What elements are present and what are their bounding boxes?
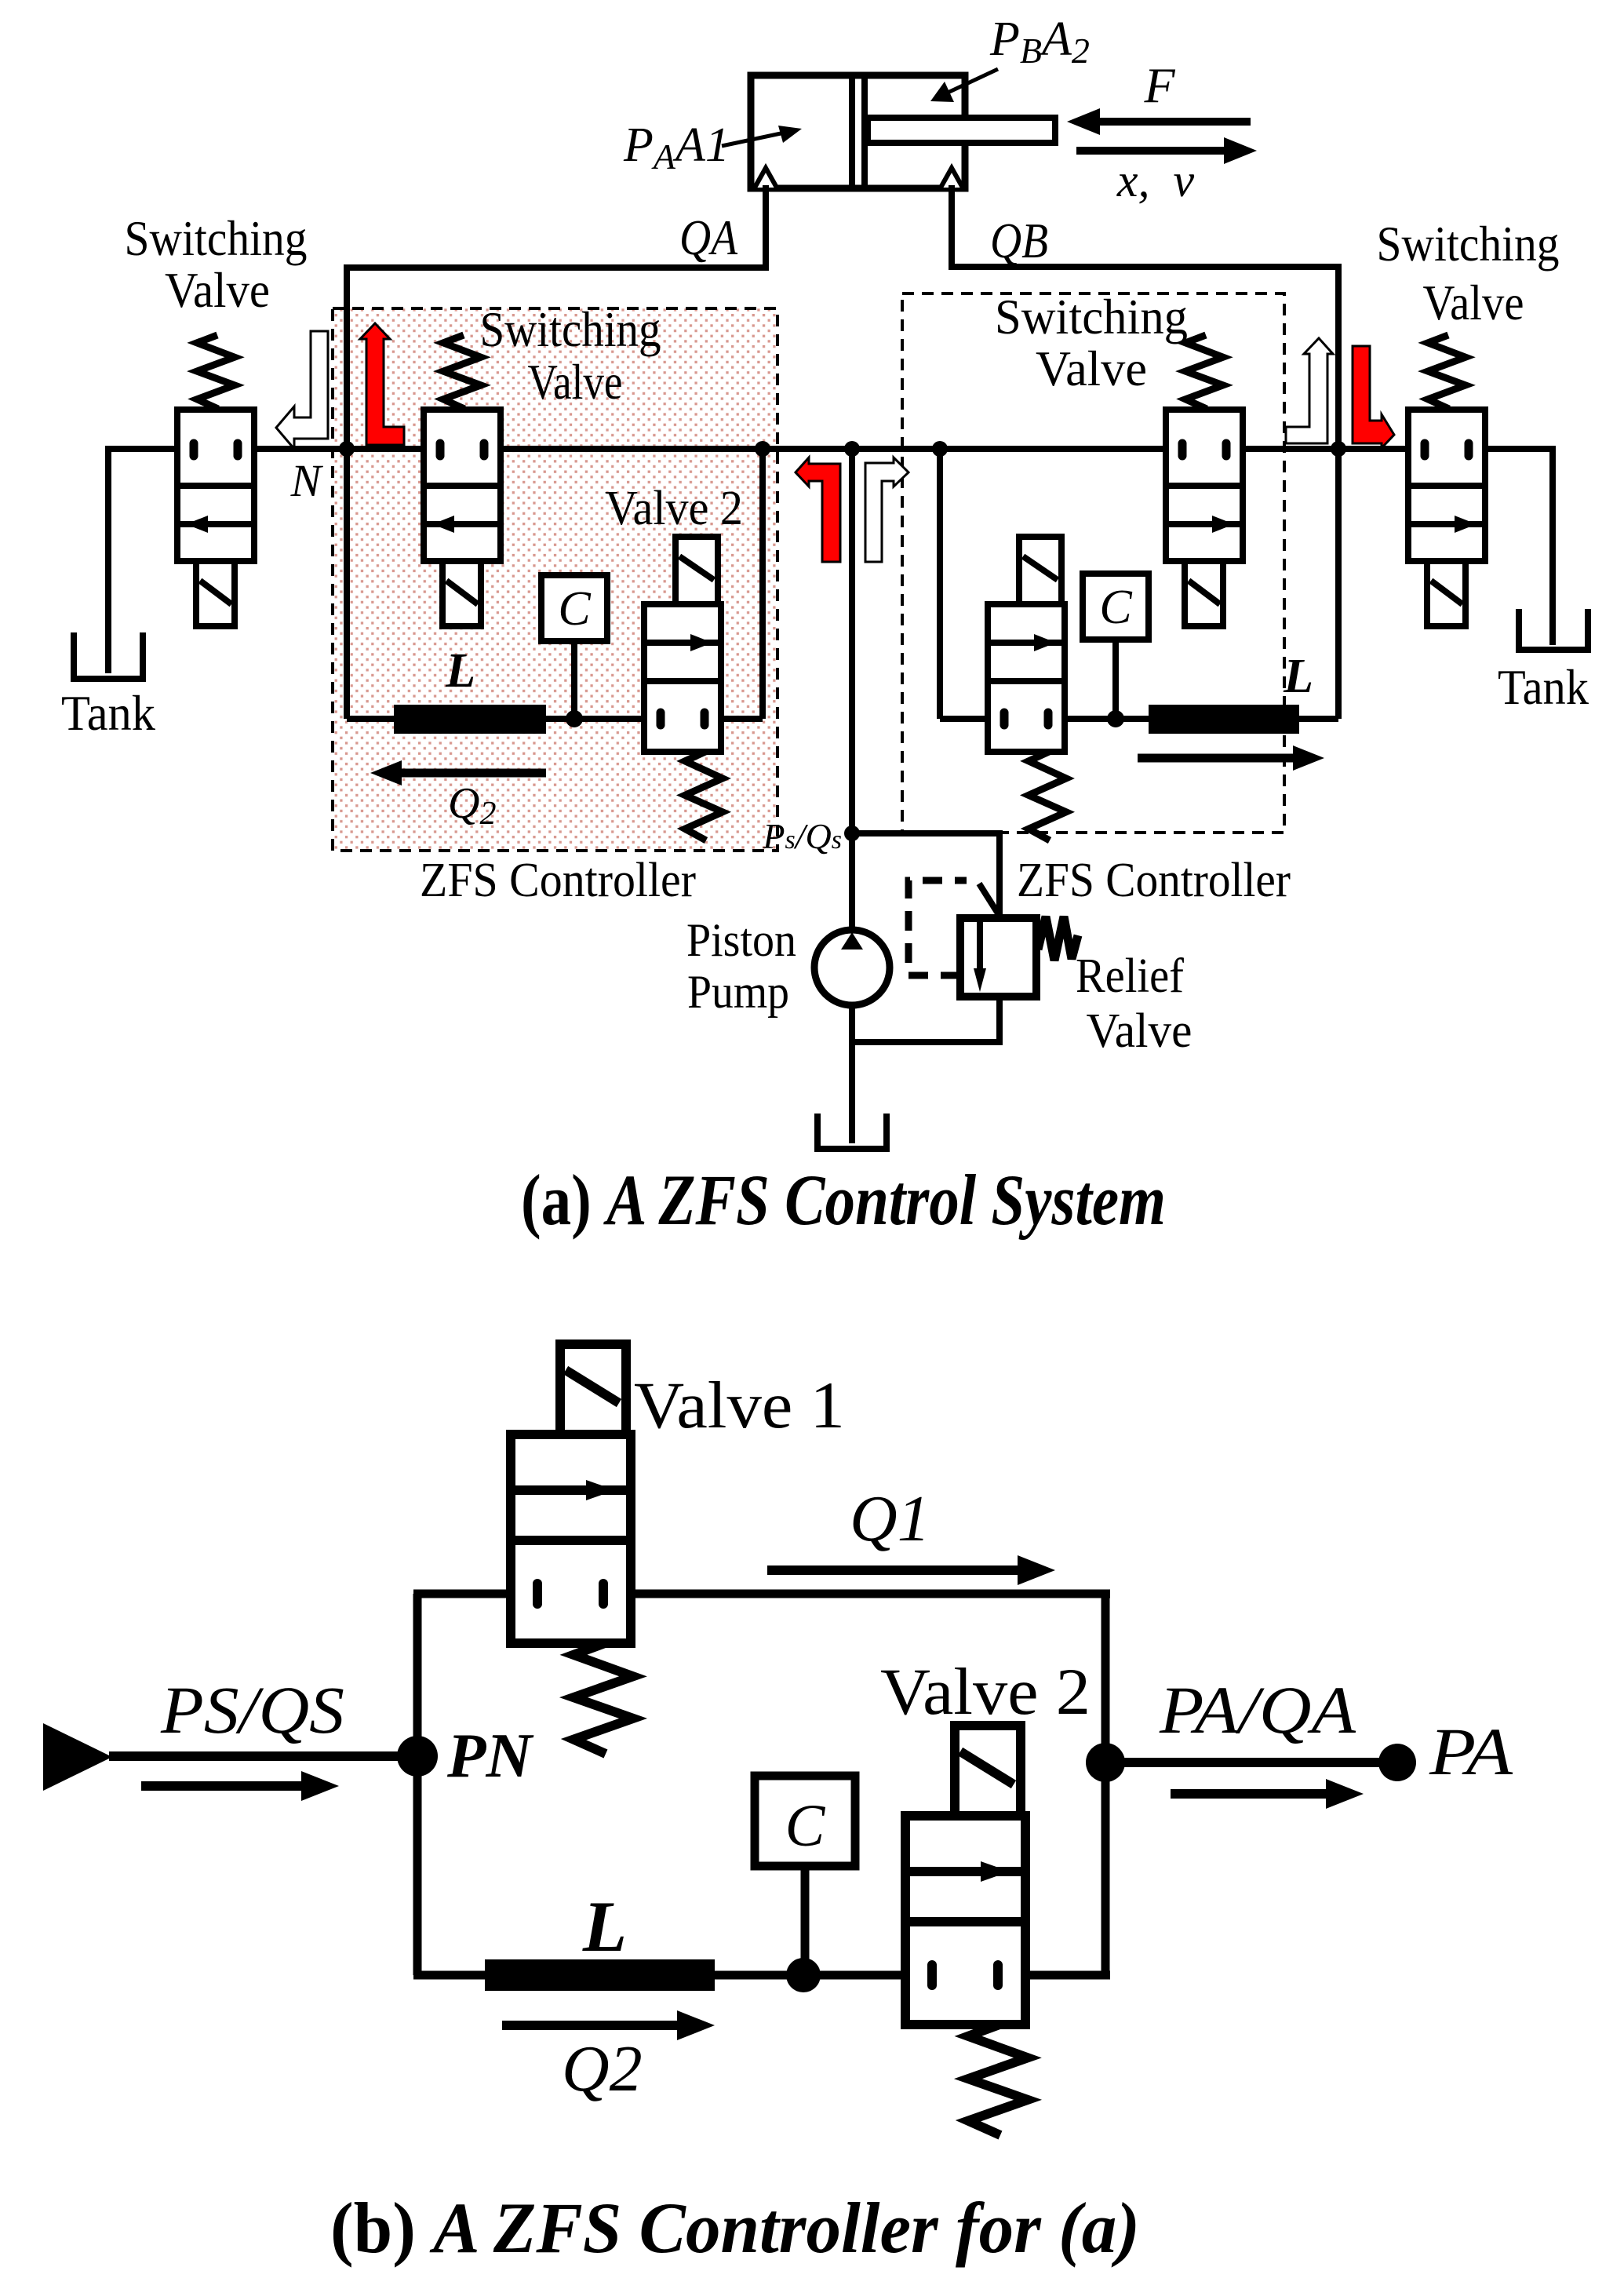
- fig-b node PA/QA dot: [1086, 1743, 1125, 1782]
- tank symbol left: [74, 632, 143, 679]
- fig-b node PN dot: [397, 1736, 438, 1777]
- Valve 1 body: [511, 1434, 631, 1643]
- svg-text:Valve: Valve: [1423, 275, 1524, 330]
- svg-text:Valve 2: Valve 2: [605, 482, 743, 535]
- svg-text:Valve 2: Valve 2: [880, 1655, 1091, 1729]
- fig-b flow arrow Q1: [767, 1565, 1018, 1575]
- valve Valve 2 left flow path: [644, 640, 721, 646]
- piston pump circle: [814, 930, 890, 1005]
- controller block C left: [541, 575, 607, 641]
- main line: center span: [484, 446, 1182, 452]
- switching valve SV-inner-right body: [1166, 410, 1243, 561]
- Valve 2 closed-port marks: [927, 1965, 937, 1985]
- ZFS controller dashed box left (shaded): [333, 308, 777, 851]
- fig-b inductance bar L: [485, 1959, 715, 1991]
- switching valve SV-outer-left flow path: [177, 521, 254, 527]
- wire C-right to rail junction: [1112, 640, 1119, 719]
- Valve 1 closed-port marks: [533, 1584, 542, 1604]
- junction dot x=1198: [932, 441, 948, 457]
- switching valve SV-inner-right solenoid: [1185, 561, 1223, 626]
- fig-b flow arrow Q2: [502, 2021, 677, 2030]
- switching valve SV-inner-right spring: [1185, 335, 1223, 409]
- svg-text:F: F: [1143, 57, 1175, 113]
- svg-text:Ps/Qs: Ps/Qs: [762, 816, 842, 856]
- svg-text:(a) A ZFS Control System: (a) A ZFS Control System: [521, 1160, 1166, 1240]
- svg-text:Valve: Valve: [1087, 1004, 1193, 1058]
- wire QA from cylinder port A: [763, 185, 769, 268]
- wire Ps/Qs to relief valve: [849, 830, 1000, 837]
- svg-text:Switching: Switching: [125, 210, 308, 266]
- svg-text:PN: PN: [446, 1722, 534, 1791]
- Valve 2 spring: [968, 2025, 1028, 2135]
- svg-text:PS/QS: PS/QS: [160, 1672, 344, 1748]
- svg-text:Tank: Tank: [1498, 659, 1589, 715]
- svg-text:ZFS Controller: ZFS Controller: [420, 854, 696, 907]
- main line left segment to tank drop: [108, 446, 194, 452]
- junction dot x=1706: [1331, 441, 1346, 457]
- fig-b top rail: [413, 1590, 538, 1598]
- cylinder port B triangle: [941, 168, 963, 188]
- relief valve internal arrow: [977, 921, 983, 978]
- red flow arrow up (left controller): [360, 323, 404, 445]
- switching valve SV-outer-right body: [1408, 410, 1485, 561]
- ZFS controller dashed box right: [902, 293, 1284, 833]
- svg-text:Switching: Switching: [995, 289, 1188, 344]
- valve Valve 2 left solenoid: [675, 537, 718, 604]
- switching valve SV-outer-left body: [177, 410, 254, 561]
- valve Valve 2 left body: [644, 604, 721, 752]
- inductance bar L right: [1149, 705, 1299, 734]
- node N junction dot: [339, 441, 355, 457]
- switching valve SV-outer-right spring: [1428, 335, 1466, 409]
- hollow flow arrow left (at node N): [276, 331, 328, 449]
- valve Valve 2 right body: [988, 604, 1065, 752]
- svg-text:C: C: [558, 582, 591, 636]
- switching valve SV-outer-left solenoid: [196, 561, 235, 626]
- branch wire x=1086 (supply from pump): [849, 449, 855, 930]
- wire relief valve return: [996, 994, 1003, 1042]
- hollow flow arrow up (right controller): [1286, 338, 1333, 443]
- fig-b right riser wire: [1101, 1594, 1110, 1975]
- pump outlet triangle: [841, 932, 863, 949]
- fig-b input triangle PS/QS: [43, 1723, 112, 1791]
- cylinder piston: [849, 75, 855, 188]
- red flow arrow left (center): [796, 457, 840, 562]
- svg-text:L: L: [445, 644, 475, 698]
- relief valve body: [960, 918, 1036, 997]
- svg-text:x, v: x, v: [1116, 155, 1195, 206]
- valve Valve 2 right flow path: [988, 640, 1065, 646]
- svg-text:Q1: Q1: [850, 1482, 930, 1555]
- fig-b output line: [1105, 1758, 1397, 1767]
- fig-b junction dot L/C: [786, 1958, 821, 1992]
- svg-text:L: L: [582, 1886, 627, 1966]
- svg-text:Valve: Valve: [1036, 341, 1147, 396]
- switching valve SV-inner-left spring: [443, 335, 481, 409]
- valve Valve 2 right spring: [1029, 752, 1066, 840]
- switching valve SV-outer-right closed-port marks: [1421, 443, 1429, 456]
- switching valve SV-outer-left closed-port marks: [190, 443, 198, 456]
- tank symbol pump: [817, 1114, 887, 1149]
- switching valve SV-inner-right flow path: [1166, 521, 1243, 527]
- svg-text:Valve 1: Valve 1: [634, 1369, 845, 1442]
- Valve 1 flow path: [511, 1485, 631, 1495]
- hydraulic cylinder body: [751, 75, 965, 188]
- wire pump to tank: [849, 1005, 855, 1143]
- force arrow F: [1100, 118, 1251, 126]
- right controller bottom rail: [940, 716, 1004, 722]
- svg-text:PAA1: PAA1: [623, 118, 730, 177]
- switching valve SV-inner-left solenoid: [442, 561, 481, 626]
- svg-text:Pump: Pump: [687, 966, 789, 1018]
- wire C-left to rail junction: [571, 641, 577, 719]
- switching valve SV-inner-left closed-port marks: [436, 443, 445, 456]
- svg-text:C: C: [785, 1793, 826, 1859]
- left controller bottom rail: [347, 716, 397, 722]
- Valve 1 spring: [573, 1643, 633, 1754]
- svg-text:L: L: [1283, 650, 1313, 703]
- main line: right of right-mid valve: [1226, 446, 1426, 452]
- svg-text:Q2: Q2: [562, 2032, 643, 2105]
- junction dot x=972: [755, 441, 770, 457]
- tank symbol right: [1519, 609, 1588, 650]
- svg-text:PA/QA: PA/QA: [1159, 1672, 1356, 1748]
- svg-text:Valve: Valve: [165, 262, 270, 318]
- svg-text:QA: QA: [679, 210, 738, 265]
- switching valve SV-inner-left body: [424, 410, 501, 561]
- relief valve pilot dashed line: [908, 880, 967, 975]
- fig-b wire C to junction: [801, 1866, 810, 1975]
- svg-text:ZFS Controller: ZFS Controller: [1017, 854, 1291, 907]
- pointer arrow to PBA2: [948, 69, 998, 93]
- valve Valve 2 right closed-port marks: [1000, 713, 1009, 725]
- flow arrow under right L bar: [1138, 754, 1293, 763]
- Valve 2 flow path: [905, 1867, 1025, 1876]
- relief valve adjust diagonal: [979, 884, 998, 913]
- fig-b left riser wire: [413, 1594, 422, 1975]
- switching valve SV-outer-right solenoid: [1427, 561, 1466, 626]
- svg-text:Piston: Piston: [686, 914, 796, 966]
- switching valve SV-inner-left flow path: [424, 521, 501, 527]
- left tank drop wire: [105, 446, 111, 673]
- junction dot right rail / C: [1107, 710, 1124, 727]
- relief valve spring: [1038, 917, 1078, 960]
- main line: far right to tank drop: [1469, 446, 1553, 452]
- hollow flow arrow right (center): [865, 457, 908, 562]
- Valve 1 solenoid: [560, 1344, 626, 1434]
- switching valve SV-inner-right closed-port marks: [1178, 443, 1187, 456]
- fig-b flow arrow PS/QS: [141, 1781, 301, 1791]
- cylinder rod: [868, 118, 1055, 143]
- switching valve SV-outer-left spring: [197, 335, 235, 409]
- svg-text:C: C: [1099, 581, 1132, 634]
- Valve 2 body: [905, 1816, 1025, 2025]
- Valve 2 solenoid: [955, 1726, 1021, 1816]
- controller block C right: [1083, 574, 1149, 640]
- inductance bar L left: [394, 705, 546, 734]
- red flow arrow down-right (far right): [1353, 346, 1394, 448]
- valve Valve 2 left spring: [685, 752, 723, 840]
- junction dot x=1086: [844, 441, 860, 457]
- svg-text:Tank: Tank: [61, 685, 155, 741]
- svg-text:Switching: Switching: [480, 301, 661, 357]
- fig-b bottom rail: [413, 1971, 488, 1980]
- valve Valve 2 right solenoid: [1019, 537, 1061, 604]
- svg-text:PA: PA: [1429, 1714, 1513, 1789]
- pointer arrow to PAA1: [722, 133, 785, 146]
- fig-b input line: [109, 1751, 417, 1761]
- svg-text:QB: QB: [990, 213, 1048, 268]
- wire QB from cylinder port B: [949, 185, 955, 267]
- fig-b node PA dot: [1378, 1744, 1416, 1781]
- fig-b controller block C: [755, 1776, 855, 1866]
- branch wire x=972 (left controller return): [759, 449, 766, 719]
- junction dot left rail / C: [566, 710, 583, 727]
- right tank drop wire: [1549, 446, 1556, 645]
- node Ps/Qs dot: [844, 826, 860, 841]
- svg-text:Switching: Switching: [1377, 216, 1560, 272]
- cylinder port A triangle: [755, 168, 777, 188]
- valve Valve 2 left closed-port marks: [657, 713, 665, 725]
- branch wire x=1198 (right controller feed): [937, 449, 943, 719]
- flow arrow Q2 left: [402, 769, 546, 778]
- main line: left valve to node N: [238, 446, 441, 452]
- svg-text:(b) A ZFS Controller for (a): (b) A ZFS Controller for (a): [330, 2188, 1140, 2268]
- svg-text:N: N: [290, 455, 324, 506]
- motion arrow x,v: [1076, 147, 1224, 155]
- fig-b flow arrow PA/QA: [1171, 1789, 1326, 1799]
- svg-text:Relief: Relief: [1076, 949, 1184, 1003]
- svg-text:Valve: Valve: [528, 354, 623, 410]
- switching valve SV-outer-right flow path: [1408, 521, 1485, 527]
